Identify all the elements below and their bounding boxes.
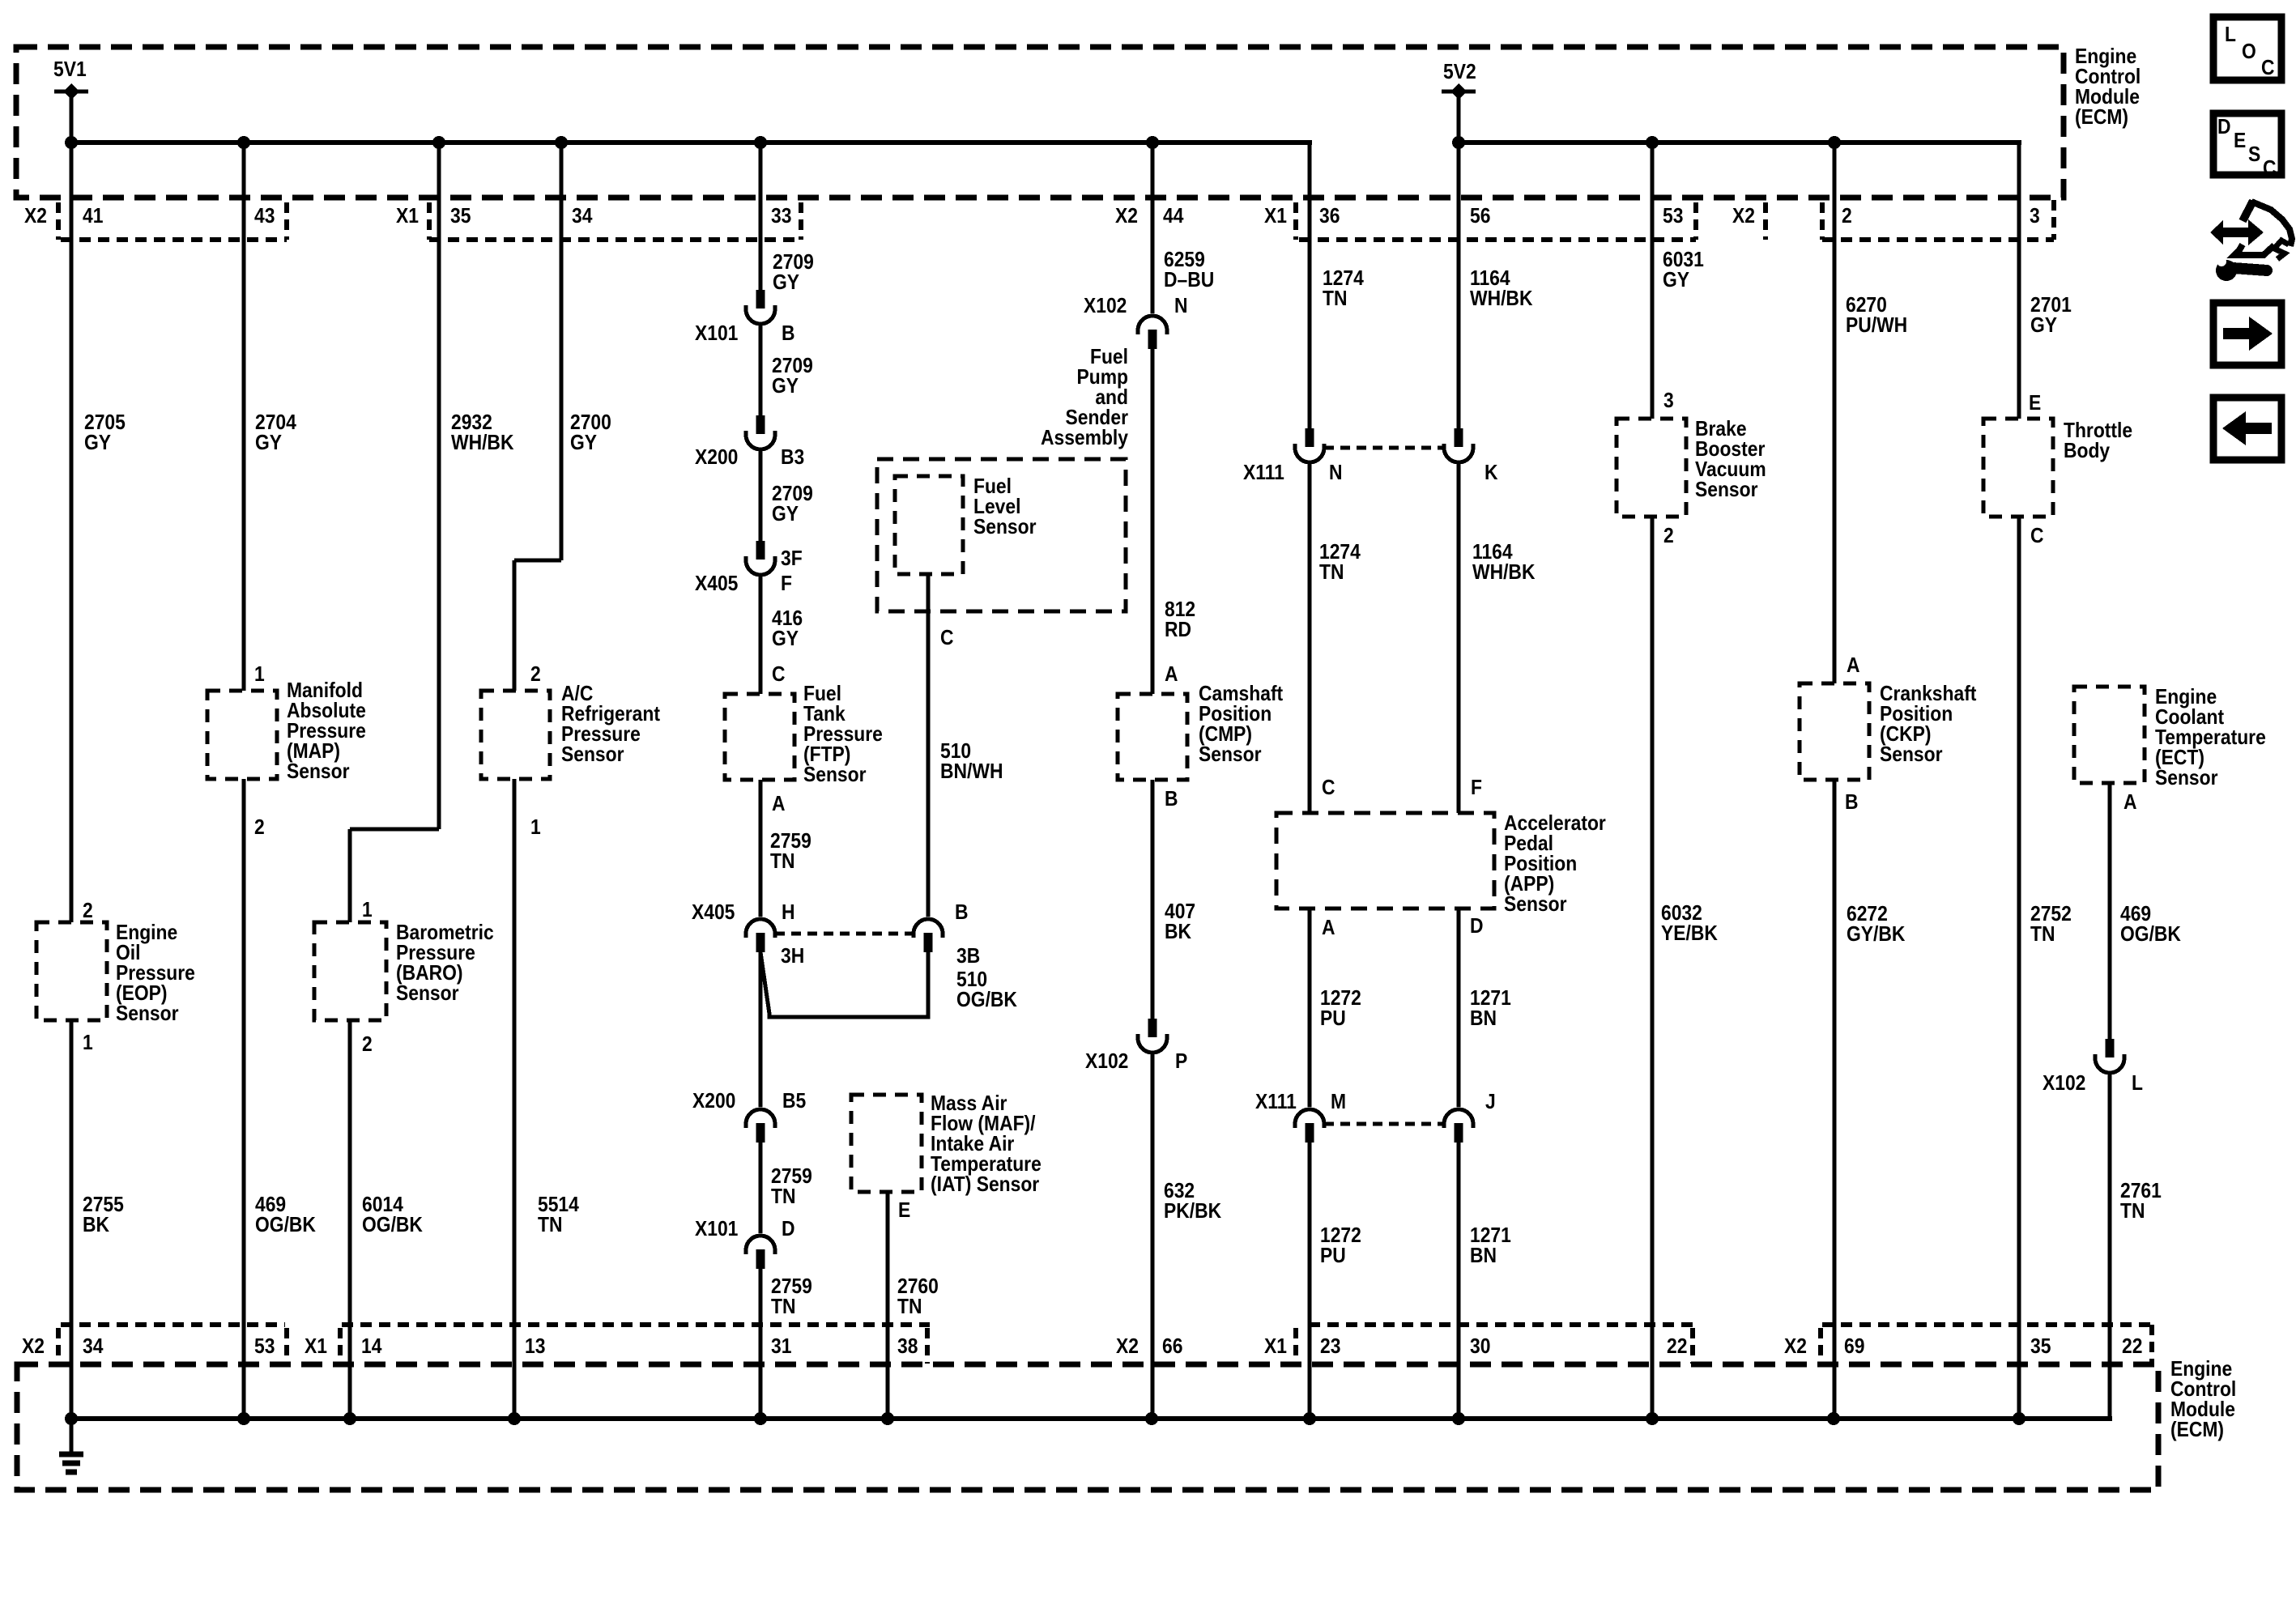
wire 2932 WH/BK to BARO (348, 829, 352, 922)
wire 510 BN/WH fuel level to X405B (926, 574, 931, 917)
svg-text:X111: X111 (1255, 1091, 1297, 1114)
component MAP sensor box (207, 691, 277, 779)
svg-text:2: 2 (530, 663, 541, 687)
ECM top connector row line 1 (61, 237, 287, 242)
svg-text:23: 23 (1320, 1335, 1340, 1359)
ECM top connector row separator 1 (56, 202, 61, 240)
wire 1272 PU X111M to pin23 (1308, 1143, 1312, 1419)
icon forward arrow box (2213, 303, 2281, 365)
connector X405 H-B mating dashed link (775, 932, 914, 936)
ECM bottom connector row line 4 (1822, 1322, 2152, 1327)
ECM top connector row separator 5 (1293, 202, 1298, 240)
svg-text:3F: 3F (781, 547, 803, 571)
junction ground bus x=1422 (1145, 1412, 1158, 1425)
connector X102 cavity P (1138, 1019, 1167, 1053)
svg-text:1: 1 (254, 663, 265, 687)
wire 2759 TN X101D to pin31 (759, 1269, 763, 1419)
svg-text:E: E (2029, 392, 2041, 415)
wire 407 BK CMP to X102P (1151, 780, 1155, 1019)
svg-text:A: A (1322, 917, 1335, 940)
svg-text:C: C (940, 627, 954, 650)
connector X405 cavity B (914, 919, 943, 952)
ECM bottom connector row separator 4 (925, 1328, 930, 1364)
svg-text:53: 53 (254, 1335, 275, 1359)
svg-text:C: C (2030, 525, 2044, 548)
connector X111 N-K mating dashed link (1324, 446, 1444, 450)
junction 5V2 bus x=1801 (1452, 136, 1465, 149)
svg-text:56: 56 (1470, 205, 1490, 228)
ECM top connector row separator 4 (799, 202, 803, 240)
component CMP sensor box (1118, 694, 1187, 780)
svg-text:X2: X2 (1784, 1335, 1807, 1359)
wire 1164 WH/BK pin56 to X111K (1457, 143, 1461, 428)
junction ground bus x=432 (343, 1412, 356, 1425)
ECM top connector row separator 7 (1763, 202, 1768, 240)
ECM top connector row separator 3 (427, 202, 432, 240)
svg-text:14: 14 (361, 1335, 382, 1359)
svg-text:S: S (2248, 143, 2260, 167)
ECM bottom connector row separator 3 (338, 1328, 343, 1364)
svg-text:X101: X101 (695, 1218, 738, 1241)
svg-text:34: 34 (83, 1335, 104, 1359)
junction ground bus x=2264 (1827, 1412, 1840, 1425)
node 5V2 symbol (1442, 83, 1476, 144)
svg-text:34: 34 (572, 205, 593, 228)
svg-text:X111: X111 (1243, 462, 1284, 485)
svg-text:F: F (1471, 777, 1482, 800)
svg-text:C: C (772, 663, 786, 687)
svg-text:D: D (2217, 116, 2231, 139)
ECM top connector row line 3 (1299, 237, 1696, 242)
svg-text:A: A (772, 793, 786, 816)
ECM bottom connector row line 2 (342, 1322, 930, 1327)
ECM bottom connector row line 3 (1309, 1322, 1693, 1327)
svg-text:N: N (1329, 462, 1343, 485)
svg-text:X1: X1 (1264, 205, 1287, 228)
svg-text:X405: X405 (695, 572, 738, 596)
connector X111 cavity M (1295, 1109, 1324, 1143)
junction 5V1 bus x=939 (754, 136, 767, 149)
svg-text:13: 13 (525, 1335, 545, 1359)
wire 2759 TN X405H to X200B5 (759, 952, 763, 1107)
wire 5V2 bus (1459, 140, 2021, 145)
svg-text:A: A (1847, 654, 1860, 678)
svg-text:C: C (2261, 57, 2275, 80)
svg-text:D: D (1470, 915, 1484, 938)
svg-text:B: B (1165, 788, 1178, 811)
svg-text:A: A (1165, 663, 1178, 687)
svg-text:3B: 3B (956, 945, 980, 968)
wire 1272 PU APP A to X111M (1308, 908, 1312, 1107)
ground symbol (59, 1454, 83, 1472)
connector X405 cavity H (746, 919, 775, 952)
svg-text:J: J (1485, 1091, 1496, 1114)
svg-text:E: E (898, 1199, 910, 1223)
svg-text:C: C (1322, 777, 1335, 800)
component A/C refrigerant pressure sensor box (481, 691, 550, 779)
svg-text:44: 44 (1163, 205, 1184, 228)
svg-text:X101: X101 (695, 322, 738, 346)
wire 5V1 bus (71, 140, 1312, 145)
svg-text:X2: X2 (1115, 205, 1138, 228)
component EOP sensor box (36, 922, 107, 1020)
svg-text:41: 41 (83, 205, 103, 228)
ECM top connector row line 4 (1822, 237, 2054, 242)
svg-text:K: K (1485, 462, 1498, 485)
svg-text:O: O (2242, 40, 2256, 64)
svg-text:D: D (782, 1218, 795, 1241)
svg-text:F: F (781, 572, 792, 596)
ECM top connector row separator 8 (1820, 202, 1825, 240)
svg-text:M: M (1331, 1091, 1346, 1114)
svg-text:66: 66 (1162, 1335, 1182, 1359)
component MAF/IAT sensor box (851, 1095, 922, 1192)
wire 2700 GY to A/C sensor (513, 560, 517, 691)
svg-text:C: C (2263, 157, 2277, 181)
svg-text:X2: X2 (1732, 205, 1755, 228)
svg-text:X2: X2 (24, 205, 47, 228)
icon LOC box (2213, 17, 2281, 80)
svg-text:2: 2 (1663, 525, 1674, 548)
svg-text:1: 1 (530, 816, 541, 840)
junction 5V2 bus x=2265 (1828, 136, 1841, 149)
svg-text:X2: X2 (22, 1335, 45, 1359)
junction ground bus x=635 (508, 1412, 521, 1425)
junction 5V1 bus x=1423 (1146, 136, 1159, 149)
connector X111 cavity N (1295, 428, 1324, 462)
svg-text:H: H (782, 901, 795, 925)
junction ground bus x=301 (237, 1412, 250, 1425)
wire 2932 WH/BK jog (350, 828, 439, 832)
svg-text:A: A (2123, 791, 2137, 815)
junction 5V2 bus x=2040 (1646, 136, 1659, 149)
junction ground bus x=88 (65, 1412, 78, 1425)
svg-text:35: 35 (2030, 1335, 2051, 1359)
svg-text:5V1: 5V1 (53, 58, 87, 82)
connector X101 cavity B (746, 290, 775, 324)
wire 416 GY X405 to FTP (759, 573, 763, 694)
wire 5514 TN A/C to pin13 (513, 779, 517, 1419)
svg-text:X2: X2 (1116, 1335, 1139, 1359)
wire 1271 BN APP D to X111J (1457, 908, 1461, 1107)
ECM top connector row right edge (2051, 200, 2056, 240)
svg-text:22: 22 (1667, 1335, 1687, 1359)
wire 2701 GY pin3 to throttle body (2017, 143, 2021, 419)
junction 5V1 bus x=301 (237, 136, 250, 149)
connector X111 cavity K (1444, 428, 1473, 462)
svg-text:407BK: 407BK (1165, 900, 1195, 944)
svg-text:L: L (2225, 23, 2236, 47)
node 5V1 symbol (54, 83, 88, 144)
junction ground bus x=1096 (881, 1412, 894, 1425)
svg-text:X1: X1 (396, 205, 419, 228)
wire 2755 BK EOP to pin34 (70, 1020, 74, 1419)
component throttle body box (1983, 419, 2053, 517)
connector X101 cavity D (746, 1236, 775, 1269)
svg-text:1: 1 (362, 899, 373, 922)
junction ground bus x=939 (754, 1412, 767, 1425)
ECM bottom connector row separator 5 (1293, 1328, 1298, 1364)
wire 2704 GY pin43 to MAP (242, 143, 246, 691)
connector X200 cavity B3 (746, 415, 775, 449)
ECM bottom box (Engine Control Module) (17, 1364, 2158, 1490)
wire 2709 GY X200 to X405 (759, 448, 763, 541)
wire 2752 TN throttle body to pin35 (2017, 517, 2021, 1419)
junction ground bus x=2493 (2013, 1412, 2026, 1425)
icon diagnostic hand with arrow and wrench (2210, 201, 2292, 281)
wire 6032 YE/BK BBV to pin22 (1651, 517, 1655, 1419)
icon DESC box (2213, 113, 2281, 180)
wire 2705 GY pin41 to EOP (70, 143, 74, 922)
junction 5V1 bus x=88 (65, 136, 78, 149)
svg-text:2: 2 (254, 816, 265, 840)
svg-text:31: 31 (771, 1335, 791, 1359)
component ECT sensor box (2074, 687, 2145, 783)
wire 2700 GY jog (514, 559, 561, 563)
wire 2932 WH/BK pin35 down (437, 143, 441, 829)
svg-text:L: L (2132, 1072, 2143, 1096)
wire 1274 TN pin36 to X111N (1308, 143, 1312, 428)
svg-text:22: 22 (2122, 1335, 2142, 1359)
wire 2700 GY pin34 down (560, 143, 564, 560)
wire 2759 TN X200B5 to X101D (759, 1143, 763, 1233)
svg-text:3: 3 (1663, 389, 1674, 413)
svg-text:36: 36 (1319, 205, 1340, 228)
svg-text:X102: X102 (1085, 1050, 1128, 1074)
svg-text:43: 43 (254, 205, 275, 228)
svg-text:38: 38 (897, 1335, 918, 1359)
svg-text:416GY: 416GY (772, 607, 803, 651)
svg-text:B: B (782, 322, 795, 346)
junction 5V1 bus x=542 (432, 136, 445, 149)
svg-text:E: E (2234, 130, 2246, 153)
svg-text:X102: X102 (2043, 1072, 2085, 1096)
ECM top box (Engine Control Module) (16, 47, 2064, 198)
wire 6270 PU/WH pin2 to CKP (1833, 143, 1837, 683)
svg-text:3H: 3H (781, 945, 804, 968)
connector X102 cavity L (2095, 1039, 2124, 1073)
wire 6272 GY/BK CKP to pin69 (1833, 780, 1837, 1419)
junction ground bus x=1617 (1303, 1412, 1316, 1425)
svg-text:2: 2 (1842, 205, 1852, 228)
connector X200 cavity B5 (746, 1109, 775, 1143)
junction ground bus x=1801 (1452, 1412, 1465, 1425)
wire 510 OG/BK jumper X405 3H to 3B (760, 952, 928, 1017)
svg-text:2: 2 (362, 1033, 373, 1057)
svg-text:X1: X1 (1264, 1335, 1287, 1359)
connector X405 cavity F (746, 541, 775, 575)
ECM bottom connector row separator 1 (56, 1328, 61, 1364)
svg-text:N: N (1174, 295, 1188, 318)
svg-text:B3: B3 (781, 446, 804, 470)
wire 2760 TN MAF to pin38 (886, 1192, 890, 1419)
wire 469 OG/BK MAP to pin53 (242, 779, 246, 1419)
wire 6259 D-BU pin44 to X102N (1151, 143, 1155, 313)
wire 1164 WH/BK X111K to APP F (1457, 461, 1461, 813)
wire 1274 TN X111N to APP C (1308, 461, 1312, 813)
svg-text:X200: X200 (695, 446, 738, 470)
svg-text:B5: B5 (782, 1090, 806, 1113)
ECM bottom connector row separator 6 (1690, 1328, 1695, 1364)
svg-text:B: B (955, 901, 969, 925)
wire 2759 TN FTP to X405H (759, 780, 763, 917)
wire 2709 GY X101 to X200 (759, 322, 763, 415)
ECM top connector row separator 2 (284, 202, 289, 240)
component Fuel Pump and Sender Assembly box (877, 459, 1126, 611)
wire ground stub (70, 1419, 74, 1454)
wire 6031 GY pin53 to BBV (1651, 143, 1655, 419)
ECM top connector row separator 6 (1693, 202, 1698, 240)
junction 5V1 bus x=693 (555, 136, 568, 149)
svg-text:53: 53 (1663, 205, 1683, 228)
wire 632 PK/BK X102P to pin66 (1151, 1051, 1155, 1419)
wire 1271 BN X111J to pin30 (1457, 1143, 1461, 1419)
svg-text:X405: X405 (692, 901, 735, 925)
svg-text:X200: X200 (692, 1090, 735, 1113)
component FTP sensor box (725, 694, 794, 780)
svg-text:X102: X102 (1084, 295, 1127, 318)
svg-text:1: 1 (83, 1032, 93, 1055)
svg-text:35: 35 (450, 205, 471, 228)
wire 2709 GY pin33 to X101 (759, 143, 763, 290)
connector X102 cavity N (1138, 316, 1167, 349)
icon back arrow box (2213, 398, 2281, 460)
component Fuel Level Sensor box (895, 476, 963, 574)
wire 469 OG/BK ECT to X102L (2108, 783, 2112, 1039)
svg-text:P: P (1175, 1050, 1187, 1074)
ECM bottom connector row right edge (2149, 1325, 2154, 1364)
ECM top connector row line 2 (429, 237, 801, 242)
wire 2761 TN X102L to pin22 (2108, 1071, 2112, 1419)
component brake booster vacuum sensor box (1617, 419, 1686, 517)
svg-text:30: 30 (1470, 1335, 1490, 1359)
junction ground bus x=2040 (1646, 1412, 1659, 1425)
wire ground bus (71, 1416, 2112, 1421)
svg-text:3: 3 (2030, 205, 2040, 228)
svg-text:B: B (1845, 791, 1859, 815)
svg-text:X1: X1 (305, 1335, 327, 1359)
component CKP sensor box (1800, 683, 1869, 780)
ECM bottom connector row separator 7 (1818, 1328, 1823, 1364)
wire 6014 OG/BK BARO to pin14 (348, 1020, 352, 1419)
ECM bottom connector row separator 2 (284, 1328, 289, 1364)
connector X111 cavity J (1444, 1109, 1473, 1143)
svg-text:812RD: 812RD (1165, 598, 1195, 642)
component BARO sensor box (314, 922, 386, 1020)
svg-text:33: 33 (771, 205, 791, 228)
connector X111 M-J mating dashed link (1324, 1122, 1444, 1126)
component APP sensor box (1276, 813, 1494, 908)
svg-text:69: 69 (1844, 1335, 1864, 1359)
svg-text:2: 2 (83, 900, 93, 923)
ECM bottom connector row line 1 (61, 1322, 285, 1327)
wire 812 RD X102N to CMP (1151, 349, 1155, 694)
svg-text:5V2: 5V2 (1443, 61, 1476, 84)
